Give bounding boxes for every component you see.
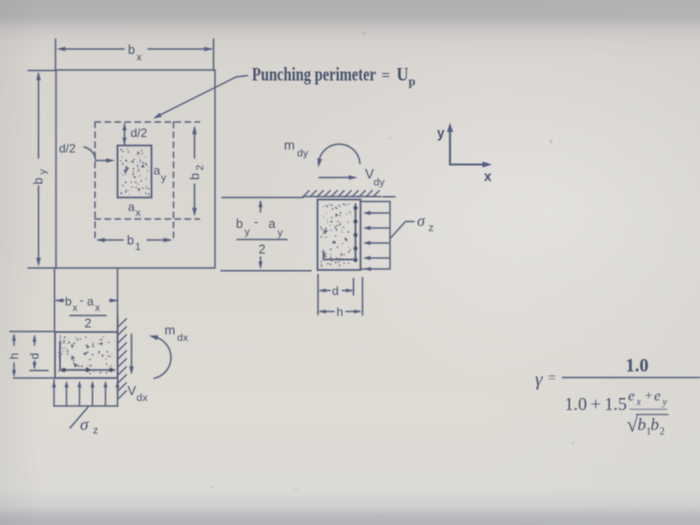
svg-text:x: x [484, 169, 492, 184]
svg-text:d/2: d/2 [59, 142, 76, 156]
svg-text:a: a [154, 164, 161, 178]
coordinate axes [447, 123, 492, 168]
svg-text:m: m [165, 323, 176, 338]
svg-text:1: 1 [135, 241, 141, 253]
svg-text:b: b [236, 217, 243, 231]
middle section rectangle (stippled) [318, 200, 361, 271]
svg-text:V: V [128, 383, 137, 398]
sigma_z leader (bottom) [70, 407, 88, 428]
dimension b_1 [96, 238, 173, 243]
leader for punching perimeter label [153, 76, 248, 119]
dimension b_y extension ticks [28, 71, 56, 269]
dimension (b_x - a_x)/2 [56, 298, 118, 302]
h,d extension lines (left of lower section) [10, 332, 55, 379]
rebar in lower section [60, 342, 115, 370]
extension lines for (b_y-a_y)/2 [221, 198, 311, 271]
dimension b_2 [192, 126, 197, 217]
formula denominator 1.0 + 1.5 [565, 394, 627, 414]
svg-text:σ: σ [417, 213, 426, 230]
svg-text:b: b [188, 173, 202, 180]
svg-text:h: h [337, 305, 344, 319]
svg-text:=: = [382, 68, 391, 84]
formula sqrt(b1 b2) [627, 413, 665, 438]
svg-text:dy: dy [297, 148, 309, 160]
svg-text:x: x [95, 303, 100, 314]
dimension d (rotated label) [33, 335, 37, 370]
wall hatching (right of lower section) [117, 316, 119, 396]
plan view: slab outline [56, 70, 215, 268]
dimension h (rotated label) [12, 334, 16, 377]
rebar in middle section [324, 204, 357, 261]
label d/2 (left) with leader arrow [59, 142, 76, 156]
svg-text:z: z [93, 425, 98, 437]
svg-text:x: x [137, 52, 143, 64]
column section (stippled) [118, 146, 152, 198]
support hatching above middle section [303, 196, 395, 198]
svg-text:dy: dy [374, 177, 386, 189]
svg-text:p: p [409, 75, 416, 89]
svg-text:b: b [32, 178, 46, 185]
svg-text:y: y [161, 172, 167, 184]
svg-text:b: b [638, 415, 647, 434]
label a_x [128, 200, 142, 219]
svg-text:y: y [437, 126, 445, 141]
svg-text:d: d [332, 284, 339, 298]
m_dy moment arc [317, 144, 360, 167]
svg-text:x: x [636, 397, 642, 408]
svg-text:a: a [128, 200, 135, 214]
svg-text:h: h [7, 353, 21, 360]
punching perimeter dashed rectangle [95, 122, 200, 241]
label m_dy [284, 138, 309, 160]
formula main fraction bar [563, 377, 700, 379]
svg-text:b: b [127, 234, 134, 248]
label a_y [154, 164, 168, 185]
dimension (b_y-a_y)/2 vertical arrows [258, 200, 262, 269]
svg-text:b: b [65, 295, 72, 309]
label G_z (sigma_z) [417, 213, 434, 234]
formula: gamma = [535, 370, 556, 391]
formula e_x + e_y [628, 388, 668, 409]
svg-text:-: - [80, 293, 84, 307]
V_dy arrow [319, 175, 358, 180]
svg-text:y: y [662, 397, 668, 408]
label sigma_z (bottom) [80, 415, 98, 437]
label m_dx [165, 323, 189, 345]
svg-text:y: y [278, 227, 284, 239]
formula small fraction bar [630, 408, 667, 410]
svg-text:a: a [87, 295, 94, 309]
photo specks [211, 32, 574, 490]
svg-text:b: b [128, 43, 135, 57]
text: Punching perimeter = U_p [252, 65, 416, 89]
m_dx moment arc [149, 335, 171, 378]
svg-text:=: = [548, 371, 556, 386]
svg-text:y: y [245, 226, 251, 238]
svg-text:d/2: d/2 [131, 126, 148, 140]
dimension d (middle) [319, 289, 353, 293]
sigma_z stress diagram (right of middle section) [361, 202, 391, 270]
svg-text:d: d [28, 353, 42, 360]
lower section rectangle (stippled) [55, 332, 118, 378]
soil stress block under lower section [54, 380, 118, 406]
dimension b_x line and arrows [57, 47, 214, 52]
svg-text:dx: dx [137, 392, 149, 404]
svg-text:1.0 + 1.5: 1.0 + 1.5 [565, 394, 627, 414]
G_z leader [391, 222, 414, 238]
svg-text:Punching perimeter: Punching perimeter [252, 65, 376, 86]
label d/2 (top) [131, 126, 148, 140]
svg-text:γ: γ [535, 370, 543, 391]
label b_x [128, 43, 143, 64]
formula numerator 1.0 [626, 357, 649, 377]
svg-text:z: z [429, 222, 434, 234]
svg-text:a: a [269, 217, 276, 231]
V_dx arrow [129, 334, 134, 375]
extension lines from plan to lower section [55, 269, 118, 332]
svg-text:e: e [628, 389, 635, 405]
svg-text:x: x [73, 303, 78, 314]
svg-text:+: + [645, 388, 652, 403]
svg-text:2: 2 [259, 243, 266, 257]
svg-text:σ: σ [80, 415, 89, 434]
svg-text:x: x [136, 207, 142, 219]
svg-text:1.0: 1.0 [626, 357, 649, 377]
d,h extension lines below middle section [318, 275, 363, 316]
svg-text:2: 2 [194, 165, 206, 171]
label b_y (rotated) [32, 169, 50, 185]
d/2 top dimension arrow [122, 123, 126, 145]
svg-text:b: b [651, 415, 660, 434]
svg-text:2: 2 [660, 427, 665, 438]
svg-text:2: 2 [85, 317, 92, 331]
dimension b_x extension ticks [56, 39, 214, 70]
svg-text:m: m [284, 138, 295, 153]
svg-text:-: - [254, 214, 258, 229]
svg-text:U: U [397, 65, 409, 86]
label (b_y - a_y)/2 [236, 214, 284, 239]
dimension h (middle) [319, 310, 361, 314]
dimension b_y line and arrows [36, 72, 41, 267]
svg-text:e: e [654, 389, 661, 405]
svg-text:y: y [37, 169, 49, 175]
svg-text:dx: dx [177, 332, 189, 344]
